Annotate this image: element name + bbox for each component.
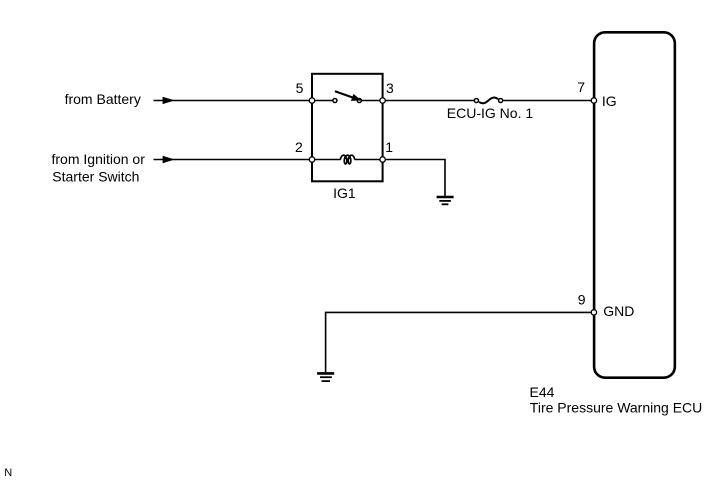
svg-text:from Ignition or: from Ignition or: [52, 151, 146, 167]
svg-text:IG1: IG1: [333, 185, 356, 201]
svg-text:9: 9: [578, 291, 586, 307]
svg-text:N: N: [4, 467, 12, 479]
svg-text:Starter Switch: Starter Switch: [52, 169, 139, 185]
svg-text:E44: E44: [530, 384, 555, 400]
svg-text:1: 1: [385, 139, 393, 155]
svg-text:ECU-IG No. 1: ECU-IG No. 1: [447, 105, 534, 121]
svg-text:from Battery: from Battery: [65, 91, 141, 107]
svg-text:7: 7: [577, 79, 585, 95]
svg-text:3: 3: [386, 80, 394, 96]
svg-text:2: 2: [295, 139, 303, 155]
svg-text:GND: GND: [603, 303, 634, 319]
svg-text:IG: IG: [602, 93, 617, 109]
svg-text:5: 5: [296, 80, 304, 96]
svg-text:Tire Pressure Warning ECU: Tire Pressure Warning ECU: [530, 400, 702, 416]
